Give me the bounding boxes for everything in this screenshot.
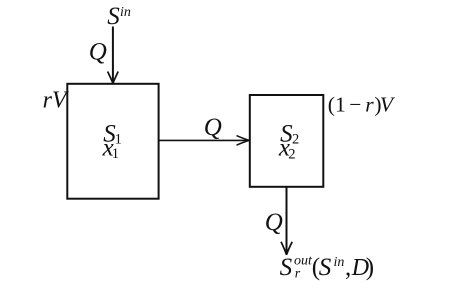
- svg-text:rV: rV: [43, 88, 69, 114]
- svg-text:in: in: [334, 255, 345, 270]
- svg-text:S: S: [107, 3, 120, 30]
- svg-text:1: 1: [115, 131, 122, 147]
- svg-text:−: −: [349, 92, 361, 116]
- svg-text:in: in: [120, 5, 131, 20]
- svg-text:2: 2: [288, 147, 295, 163]
- svg-text:1: 1: [112, 146, 119, 162]
- svg-text:Q: Q: [265, 209, 283, 236]
- svg-text:S: S: [319, 254, 332, 281]
- svg-text:): ): [366, 254, 374, 281]
- svg-text:r: r: [365, 92, 374, 116]
- svg-text:S: S: [280, 254, 293, 281]
- svg-text:Q: Q: [204, 114, 222, 141]
- svg-text:Q: Q: [89, 39, 107, 66]
- svg-text:(1: (1: [328, 92, 346, 116]
- svg-text:r: r: [295, 267, 301, 282]
- svg-text:,: ,: [345, 254, 351, 281]
- svg-text:2: 2: [292, 131, 299, 147]
